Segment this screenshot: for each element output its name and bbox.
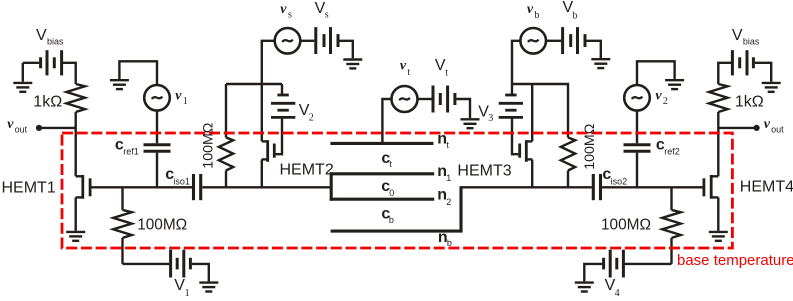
red dashed box base temperature region	[62, 133, 732, 248]
wire v_t to V_t	[418, 98, 432, 100]
svg-text:bias: bias	[743, 36, 760, 46]
svg-text:s: s	[288, 10, 292, 21]
svg-text:iso2: iso2	[611, 176, 628, 186]
ac source v1	[144, 85, 170, 111]
svg-text:t: t	[407, 67, 410, 78]
wire c_ref2 to gate bus	[636, 153, 638, 188]
ground (V_b)	[591, 59, 610, 68]
battery V_bias right	[718, 50, 771, 84]
svg-text:v: v	[7, 117, 14, 132]
svg-text:v: v	[764, 117, 771, 132]
resistor 100MOhm lower-left	[113, 187, 132, 264]
ground (v_2)	[665, 80, 684, 89]
ground (HEMT4 source)	[709, 232, 728, 241]
battery V_bias left	[23, 50, 76, 84]
wire gate bus right	[602, 186, 704, 188]
wire to battery V_4	[625, 263, 672, 265]
svg-text:4: 4	[615, 288, 620, 299]
plate n_1	[330, 172, 435, 175]
svg-text:100MΩ: 100MΩ	[582, 124, 598, 170]
resistor 1kOhm left	[66, 84, 85, 112]
wire v_t to n_t	[382, 99, 391, 143]
svg-text:b: b	[572, 10, 577, 21]
node v_out left wire	[39, 127, 76, 129]
svg-text:1: 1	[185, 288, 190, 299]
svg-text:v: v	[280, 2, 287, 17]
wire bias rail right (y84)	[512, 84, 568, 138]
svg-text:base temperature: base temperature	[677, 252, 793, 269]
wire c_ref1 to gate bus	[156, 153, 158, 188]
wire v_s to V_s	[300, 40, 314, 42]
svg-text:2: 2	[309, 113, 314, 124]
svg-text:1: 1	[446, 173, 451, 183]
svg-text:100MΩ: 100MΩ	[201, 123, 217, 169]
svg-text:v: v	[400, 59, 407, 74]
transistor HEMT3	[520, 140, 533, 187]
svg-text:v: v	[527, 2, 534, 17]
svg-text:V: V	[732, 27, 743, 44]
ground (v_1)	[110, 80, 129, 89]
svg-text:0: 0	[389, 188, 394, 198]
wire v_s to HEMT2 drain	[262, 41, 275, 142]
svg-text:2: 2	[446, 197, 451, 207]
plate n_b	[331, 230, 463, 233]
ac source v_t	[392, 86, 418, 112]
svg-text:HEMT3: HEMT3	[457, 162, 511, 179]
ground (V_4)	[575, 283, 594, 292]
svg-text:iso1: iso1	[173, 176, 190, 186]
wire gate bus mid-right	[461, 186, 592, 188]
wire v2 to c_ref2	[636, 111, 638, 144]
ground (V_s)	[343, 60, 362, 69]
svg-text:v: v	[175, 88, 182, 103]
capacitor c_iso1	[194, 174, 201, 200]
battery V_t	[433, 86, 470, 119]
svg-text:b: b	[389, 215, 394, 225]
wire ground to v_1	[119, 61, 157, 85]
ground (V_1)	[199, 283, 218, 292]
plate n_2	[330, 198, 435, 201]
wire V_3 to HEMT3 gate	[512, 117, 518, 154]
ground (V_bias left)	[13, 63, 32, 92]
resistor 100MOhm lower-right	[662, 187, 681, 264]
svg-text:1kΩ: 1kΩ	[735, 93, 764, 110]
ground (V_bias right)	[762, 83, 781, 92]
svg-text:3: 3	[488, 113, 493, 124]
ac source v2	[624, 85, 650, 111]
wire ground to v_2	[637, 61, 675, 85]
capacitor c_ref2	[624, 145, 651, 152]
battery V_b	[563, 27, 601, 58]
ac source v_s	[275, 28, 301, 54]
battery V_2	[271, 84, 295, 117]
svg-text:ref1: ref1	[123, 147, 139, 157]
plate n_t	[330, 142, 433, 145]
svg-text:ref2: ref2	[664, 147, 680, 157]
svg-text:1kΩ: 1kΩ	[33, 93, 62, 110]
ac source v_b	[520, 28, 546, 54]
wire drain HEMT4	[717, 112, 719, 176]
battery V_3	[499, 84, 523, 117]
svg-text:HEMT1: HEMT1	[2, 179, 56, 196]
svg-text:s: s	[325, 9, 329, 20]
wire v_b to V_b	[546, 40, 561, 42]
battery V_4	[584, 250, 623, 282]
wire v1 to c_ref1	[156, 111, 158, 144]
node v_out right dot	[754, 125, 760, 131]
capacitor c_ref1	[144, 145, 171, 152]
svg-text:bias: bias	[47, 36, 64, 46]
svg-text:HEMT4: HEMT4	[740, 179, 793, 196]
svg-text:b: b	[447, 238, 452, 248]
wire HEMT3 drain	[531, 84, 533, 141]
wire gate bus mid-left	[202, 186, 331, 188]
svg-text:2: 2	[663, 96, 668, 107]
resistor 1kOhm right	[709, 84, 728, 112]
svg-text:t: t	[445, 67, 448, 78]
svg-text:v: v	[655, 88, 662, 103]
ground (V_t)	[461, 119, 480, 128]
battery V_s	[316, 27, 353, 58]
capacitor c_iso2	[593, 174, 600, 200]
transistor HEMT2	[262, 140, 275, 187]
node v_out left dot	[36, 125, 42, 131]
wire to battery V_1	[123, 263, 170, 265]
svg-text:100MΩ: 100MΩ	[601, 216, 651, 233]
transistor HEMT1	[76, 175, 90, 231]
wire gate bus left	[91, 186, 192, 188]
svg-text:out: out	[771, 125, 784, 135]
resistor 100MOhm rotated right	[561, 138, 575, 188]
wire bias rail left (y84)	[226, 83, 282, 85]
ground (HEMT1 source)	[66, 232, 85, 241]
wire drain HEMT1	[74, 112, 76, 176]
svg-text:100MΩ: 100MΩ	[137, 216, 187, 233]
resistor 100MOhm rotated left	[219, 84, 233, 187]
node v_out right wire	[718, 127, 756, 129]
svg-text:b: b	[534, 10, 539, 21]
battery V_1	[171, 250, 209, 282]
svg-text:1: 1	[183, 96, 188, 107]
svg-text:V: V	[36, 27, 47, 44]
svg-text:HEMT2: HEMT2	[280, 162, 334, 179]
bracket n_1 n_2	[330, 172, 333, 200]
svg-text:out: out	[15, 125, 28, 135]
transistor HEMT4	[704, 175, 718, 231]
wire v_b down	[512, 41, 520, 84]
bracket n_b to bus	[459, 186, 462, 231]
wire V_2 to HEMT2 gate	[276, 117, 282, 154]
